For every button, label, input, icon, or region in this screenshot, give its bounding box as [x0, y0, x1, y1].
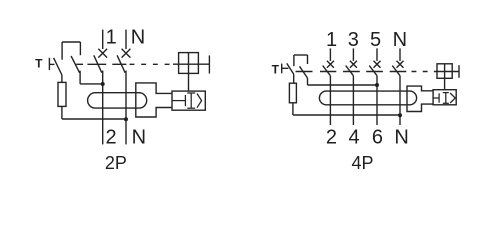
wire pole 5 lower (4P) — [376, 76, 378, 125]
wire pole 3 lower (4P) — [352, 76, 354, 125]
relay symbol chevron (4P) — [450, 93, 455, 103]
trip coil square (4P) — [437, 64, 452, 79]
linkage solid segment T (4P) — [296, 71, 313, 73]
contact blade pole 1 (4P) — [323, 66, 331, 76]
relay symbol I bottom serif (4P) — [443, 102, 449, 104]
trip coil end bar (4P) — [458, 65, 460, 78]
linkage dashed segment (2P) — [130, 63, 174, 65]
sensing coil pickup (2P) — [136, 83, 172, 117]
trip coil cross line (2P) — [173, 63, 209, 65]
svg-text:N: N — [394, 127, 408, 149]
wire resistor down (2P) — [61, 106, 63, 119]
wire test tap to pole 5 (4P) — [308, 84, 378, 86]
relay symbol I stem (2P) — [190, 93, 192, 108]
contact blade pole N — [117, 55, 125, 72]
linkage solid segment 1 (2P) — [76, 63, 83, 65]
relay symbol line (2P) — [172, 100, 185, 102]
relay symbol line (4P) — [433, 97, 439, 99]
wire pole 3 top (4P) — [352, 48, 354, 61]
relay symbol I bottom serif (2P) — [187, 107, 195, 109]
wire pole 5 top (4P) — [376, 48, 378, 61]
test mechanism blade (4P) — [300, 66, 308, 78]
svg-text:T: T — [272, 63, 280, 77]
wire blade to resistor (4P) — [293, 74, 295, 83]
svg-text:5: 5 — [370, 29, 381, 51]
linkage solid segment pole N (4P) — [390, 71, 407, 73]
relay symbol I top serif (2P) — [187, 92, 195, 94]
terminal X pole N (4P) — [397, 61, 404, 68]
wire test tap to pole 1 (2P) — [80, 83, 103, 85]
linkage solid segment pole 5 (4P) — [366, 71, 383, 73]
linkage dashed segment (4P) — [412, 71, 435, 73]
wire test mechanism down (2P) — [79, 71, 81, 84]
terminal X pole 3 (4P) — [350, 61, 357, 68]
terminal X pole 1 — [98, 49, 107, 58]
wire test return to N (2P) — [62, 118, 126, 120]
trip coil square (2P) — [179, 53, 199, 74]
toroid current transformer (4P) — [319, 91, 416, 105]
svg-text:4: 4 — [349, 127, 360, 149]
linkage solid segment pole 1 (4P) — [320, 71, 336, 73]
wire pole N top (4P) — [399, 48, 401, 61]
wire test loop top (2P) — [62, 41, 80, 43]
wire relay to trip coil (4P) — [444, 64, 446, 90]
relay box (4P) — [433, 90, 456, 105]
wire pole N top — [125, 30, 127, 49]
svg-text:1: 1 — [106, 27, 117, 49]
toroid current transformer (2P) — [88, 93, 147, 108]
svg-text:N: N — [393, 29, 407, 51]
linkage solid segment 2 (2P) — [87, 63, 106, 65]
terminal X pole N — [122, 49, 131, 58]
wire test loop right (4P) — [307, 55, 309, 64]
resistor test (2P) — [58, 82, 66, 106]
wire test fixed contact (4P) — [293, 55, 295, 66]
svg-text:6: 6 — [372, 127, 383, 149]
svg-text:2: 2 — [326, 127, 337, 149]
relay symbol I stem (4P) — [445, 93, 447, 104]
wire test loop top (4P) — [294, 54, 308, 56]
trip coil end bar (2P) — [208, 55, 210, 73]
wire pole N lower — [125, 71, 127, 145]
svg-text:N: N — [132, 127, 146, 149]
node junction on pole 5 (4P) — [375, 83, 379, 87]
test button bar (4P) — [281, 64, 283, 74]
wire blade to resistor (2P) — [61, 75, 63, 82]
relay symbol I top serif (4P) — [443, 92, 449, 94]
svg-text:T: T — [35, 57, 43, 71]
wire relay to trip coil (2P) — [188, 53, 190, 92]
wire test loop right (2P) — [79, 42, 81, 55]
test button wire (4P) — [282, 67, 289, 69]
node junction on pole 1 (2P) — [101, 82, 105, 86]
svg-text:N: N — [131, 27, 145, 49]
contact blade pole N (4P) — [392, 66, 400, 76]
contact blade pole 5 (4P) — [369, 66, 377, 76]
svg-text:2P: 2P — [105, 153, 127, 173]
wire pole N lower (4P) — [399, 76, 401, 125]
terminal X pole 5 (4P) — [374, 61, 381, 68]
wire pole 1 top (4P) — [329, 48, 331, 61]
linkage solid segment 3 (2P) — [112, 63, 126, 65]
svg-text:4P: 4P — [351, 153, 373, 173]
sensing coil pickup (4P) — [407, 86, 433, 111]
linkage solid segment pole 3 (4P) — [343, 71, 360, 73]
svg-text:3: 3 — [348, 29, 359, 51]
node junction on pole N (2P) — [124, 117, 128, 121]
resistor test (4P) — [289, 83, 296, 103]
wire test return to N (4P) — [293, 114, 400, 116]
contact blade pole 1 — [94, 55, 102, 72]
relay symbol bar (2P) — [184, 95, 186, 106]
wire pole 1 top — [102, 30, 104, 49]
relay symbol bar (4P) — [438, 93, 440, 102]
wire pole 1 lower (4P) — [329, 76, 331, 125]
node junction on pole N (4P) — [398, 113, 402, 117]
contact blade pole 3 (4P) — [346, 66, 354, 76]
wire test mechanism down (4P) — [307, 78, 309, 85]
terminal X pole 1 (4P) — [327, 61, 334, 68]
svg-text:2: 2 — [105, 127, 116, 149]
test button wire (2P) — [49, 63, 54, 65]
wire resistor down (4P) — [292, 102, 294, 115]
test mechanism blade (2P) — [71, 56, 80, 73]
test button bar (2P) — [48, 58, 50, 70]
test contact blade (4P) — [287, 63, 294, 74]
trip coil cross line (4P) — [435, 71, 460, 73]
wire pole 1 lower — [102, 71, 104, 145]
test contact blade (2P) — [54, 58, 62, 75]
svg-text:1: 1 — [326, 29, 337, 51]
wire test fixed contact (2P) — [61, 42, 63, 60]
relay symbol chevron (2P) — [197, 94, 202, 108]
relay box (2P) — [172, 91, 205, 110]
